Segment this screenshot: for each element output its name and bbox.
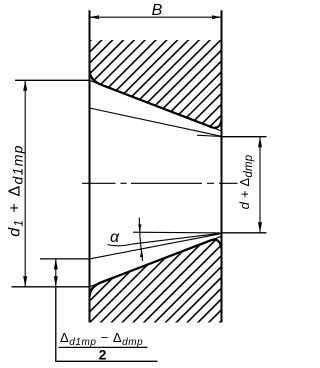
dimension d1 arrow top — [23, 80, 27, 91]
svg-text:B: B — [152, 2, 163, 19]
leader to formula — [56, 287, 158, 362]
limit profile line upper — [90, 108, 222, 136]
hatching upper section — [90, 40, 222, 128]
horizontal reference line lower — [133, 231, 222, 234]
bore outline lower (nominal, thin to corner) — [90, 236, 222, 287]
dimension B line — [90, 16, 222, 18]
angle arrow down — [138, 224, 141, 232]
dimension delta arrow top — [54, 259, 58, 270]
dimension B arrow left — [90, 15, 100, 19]
extension line delta top — [40, 258, 90, 260]
fraction bar — [59, 346, 148, 348]
dimension delta line — [55, 259, 57, 287]
bore outline upper (nominal, thin to corner) — [90, 80, 222, 131]
dimension d arrow top — [258, 137, 262, 148]
dimension delta arrow bottom — [54, 276, 58, 287]
angle arc arrow — [139, 218, 142, 262]
bore outline upper thick with fillets — [90, 70, 222, 128]
dimension d1 arrow bottom — [23, 276, 27, 287]
svg-text:2: 2 — [99, 346, 107, 362]
svg-text:α: α — [110, 229, 120, 246]
alpha side line lower — [108, 233, 222, 246]
horizontal stub upper — [197, 135, 222, 136]
centerline — [82, 182, 238, 184]
angle arrow up — [140, 250, 143, 258]
dimension d line — [259, 137, 261, 233]
left face edge — [89, 10, 91, 322]
bore outline lower thick with fillets — [90, 240, 222, 297]
dimension d arrow bottom — [258, 222, 262, 233]
extension line d bottom — [222, 232, 267, 234]
right face edge — [221, 10, 223, 322]
dimension B arrow right — [212, 15, 222, 19]
extension line d1 top — [15, 79, 90, 81]
extension line d top — [222, 136, 267, 138]
limit profile line lower — [90, 234, 222, 259]
hatching lower section — [90, 240, 222, 323]
extension line d1 bottom — [12, 286, 90, 288]
dimension d1 line — [24, 80, 26, 286]
